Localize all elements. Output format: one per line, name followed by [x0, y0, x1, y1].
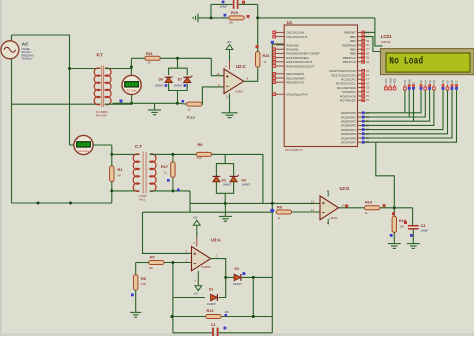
- meter ammeter PA1: [74, 135, 93, 154]
- svg-text:RE2/AN7/CS: RE2/AN7/CS: [286, 81, 304, 85]
- svg-text:RC5/SDO: RC5/SDO: [342, 90, 356, 94]
- U1 left pins: [276, 31, 284, 33]
- wire P.T primary top lead: [70, 68, 101, 70]
- wire P.T primary bottom: [12, 103, 101, 105]
- pin end cap right: [242, 1, 244, 3]
- marker D7: [184, 84, 187, 87]
- svg-text:1N4007: 1N4007: [174, 85, 183, 88]
- wire R7 right to inverting: [164, 262, 191, 264]
- wire net vertical low: [271, 277, 273, 332]
- marker R18: [390, 234, 393, 237]
- svg-text:RA3/AN3/VREF+: RA3/AN3/VREF+: [286, 56, 309, 60]
- wire LCD D4 to RD4: [365, 90, 444, 130]
- wire U3:A output down: [210, 259, 226, 278]
- resistor R12 body: [187, 102, 203, 106]
- diode D7: [183, 75, 192, 82]
- svg-text:R11: R11: [146, 52, 153, 56]
- svg-text:+: +: [77, 137, 79, 141]
- op-amp U2:C LM324: [224, 69, 244, 94]
- junction R19 parallel: [210, 16, 213, 19]
- wire clamp top stem: [177, 58, 179, 68]
- wire row B to U3:A +input: [143, 212, 192, 253]
- op-amp U3:A LM358N: [192, 247, 211, 271]
- junction voltmeter bottom: [130, 102, 133, 105]
- svg-text:RB3/PGM: RB3/PGM: [342, 43, 356, 47]
- wire R13 left lead: [173, 316, 205, 318]
- svg-text:RB0/INT: RB0/INT: [344, 31, 356, 35]
- svg-text:1N4007: 1N4007: [223, 183, 232, 186]
- marker near voltmeter: [120, 100, 123, 103]
- ground R18: [388, 244, 401, 249]
- wire LCD D5 to RD5: [365, 90, 448, 134]
- svg-text:LCD1: LCD1: [381, 34, 393, 39]
- wire cap down to node: [257, 4, 259, 18]
- resistor R16 body: [256, 52, 260, 68]
- resistor R6 body: [134, 275, 138, 291]
- wire clamp box top: [169, 68, 188, 75]
- marker R17 b: [177, 189, 180, 192]
- svg-text:+: +: [125, 77, 127, 81]
- pin end R19 right: [247, 15, 249, 17]
- wire LCD D3 to RD3: [365, 90, 434, 126]
- wire C1 right lead: [219, 332, 272, 334]
- wire R18 bottom lead: [393, 232, 395, 243]
- svg-text:RC6/TX/CK: RC6/TX/CK: [340, 94, 356, 98]
- svg-text:RD2/PSP2: RD2/PSP2: [341, 120, 356, 124]
- wire U2:D output: [339, 207, 364, 209]
- junction P.T primary top: [68, 67, 71, 70]
- wire D3 left: [226, 276, 234, 278]
- svg-text:C3: C3: [421, 224, 426, 228]
- junction bottom run a: [37, 202, 40, 205]
- AC source VSINE: [1, 41, 19, 59]
- ground common row: [219, 216, 232, 221]
- svg-text:P.T: P.T: [97, 53, 104, 58]
- ground P.T rail: [148, 110, 161, 115]
- diode D1: [211, 294, 218, 301]
- junction clamp top tap: [176, 57, 179, 60]
- svg-text:10k: 10k: [197, 156, 202, 160]
- wire R9 to U2:D inverting: [292, 211, 320, 213]
- wire R1 bottom lead: [111, 182, 113, 203]
- marker RA0: [271, 41, 274, 44]
- wire U2:C V+ stub: [229, 55, 231, 61]
- wire D3 right to net: [242, 276, 272, 278]
- svg-text:MCLR/Vpp/THV: MCLR/Vpp/THV: [286, 93, 308, 97]
- wire node18 run under LCD: [375, 18, 383, 46]
- capacitor 104pF top: [234, 0, 238, 9]
- svg-text:OSC2/CLKOUT: OSC2/CLKOUT: [286, 35, 307, 39]
- svg-text:12: 12: [311, 200, 315, 204]
- svg-text:1N4007: 1N4007: [207, 303, 216, 306]
- wire U3:A V+ stub: [196, 231, 198, 237]
- wire C.T secondary top: [150, 153, 197, 155]
- svg-text:OSC1/CLKIN: OSC1/CLKIN: [286, 31, 304, 35]
- wire ammeter right lead: [93, 144, 112, 146]
- wire C.T primary bottom lead: [112, 190, 140, 192]
- wire AC+ vertical to meter: [69, 35, 71, 145]
- svg-text:D1: D1: [209, 287, 213, 291]
- wire lower clamp bottom stem: [224, 193, 226, 203]
- junction meter top: [130, 66, 133, 69]
- svg-text:RD4/PSP4: RD4/PSP4: [341, 128, 356, 132]
- wire RA0 pin stub: [272, 43, 284, 45]
- wire AC- bottom run: [12, 202, 112, 204]
- svg-text:RA4/T0CKI/C1OUT: RA4/T0CKI/C1OUT: [286, 60, 312, 64]
- wire C3 bottom lead: [412, 229, 414, 244]
- meter voltmeter PV1: [122, 75, 141, 94]
- wire common row A / U2:D +input: [190, 202, 320, 204]
- ground C3: [407, 244, 420, 249]
- svg-text:RC0/T1OSO/T1CKI: RC0/T1OSO/T1CKI: [329, 69, 356, 73]
- resistor R19 body: [229, 16, 245, 20]
- svg-text:1N4007: 1N4007: [155, 85, 164, 88]
- wire U2:C output up to R16: [244, 67, 258, 81]
- pin U2:C V+: [229, 61, 231, 70]
- junction R13 left: [170, 315, 173, 318]
- resistor R11 body: [145, 56, 161, 60]
- wire top rail: [12, 34, 70, 36]
- wire R16 top lead: [257, 18, 259, 52]
- wire AC- vertical: [11, 59, 13, 203]
- wire lower clamp top stem: [224, 154, 226, 163]
- svg-text:RD5/PSP5: RD5/PSP5: [341, 132, 356, 136]
- svg-text:R19: R19: [231, 11, 238, 15]
- svg-text:RE1/AN6/WR: RE1/AN6/WR: [286, 76, 305, 80]
- wire R12 to inverting input: [202, 87, 224, 104]
- svg-text:RD7/PSP7: RD7/PSP7: [341, 141, 356, 145]
- wire LCD D2 to RD2: [365, 90, 430, 121]
- svg-text:RA0/AN0: RA0/AN0: [286, 43, 299, 47]
- wire LCD E drop: [413, 90, 415, 121]
- svg-text:U2:C: U2:C: [236, 64, 246, 69]
- junction C.T primary top: [110, 153, 113, 156]
- svg-text:RA2/AN2/VREF-/CVREF: RA2/AN2/VREF-/CVREF: [286, 52, 320, 56]
- svg-text:RA1/AN1: RA1/AN1: [286, 48, 299, 52]
- pin end U2:D out: [346, 205, 348, 207]
- marker R19: [224, 14, 227, 17]
- resistor R17 body: [171, 162, 175, 178]
- svg-text:U1: U1: [287, 20, 293, 25]
- svg-text:RD0/PSP0: RD0/PSP0: [341, 111, 356, 115]
- wire C3 top lead: [412, 208, 414, 225]
- svg-text:PIC16F877A: PIC16F877A: [285, 148, 302, 152]
- svg-text:+5V: +5V: [226, 40, 231, 44]
- wire R8 right drop: [212, 154, 263, 203]
- junction R17 top: [171, 153, 174, 156]
- junction R17 bottom: [171, 189, 174, 192]
- svg-text:R9: R9: [277, 205, 282, 209]
- resistor R14 body: [364, 206, 380, 210]
- svg-text:No Load: No Load: [389, 56, 423, 67]
- svg-text:U3:A: U3:A: [211, 237, 221, 242]
- svg-text:RC1/T1OSI/CCP2: RC1/T1OSI/CCP2: [331, 73, 356, 77]
- junction R9 tap (blue): [270, 209, 274, 213]
- LCD screen: [386, 53, 470, 72]
- ground R6: [130, 312, 141, 317]
- wire R6 top lead: [135, 263, 137, 275]
- marker C1: [224, 327, 227, 330]
- wire R14 right: [380, 207, 412, 209]
- wire to U2:C non-inverting input: [211, 58, 224, 75]
- resistor R1 body: [110, 166, 114, 182]
- wire RA0 net vertical: [271, 44, 273, 277]
- svg-text:LM016L: LM016L: [381, 40, 392, 44]
- wire LCD D7 to RD7: [365, 90, 457, 142]
- resistor R8 body: [196, 152, 212, 156]
- wire R17 top lead: [172, 154, 174, 161]
- marker C3: [410, 234, 413, 237]
- wire voltmeter bottom: [131, 95, 133, 104]
- svg-text:R14: R14: [365, 200, 373, 204]
- wire R11 right to opamp node: [160, 57, 211, 59]
- svg-text:RC7/RX/DT: RC7/RX/DT: [340, 99, 356, 103]
- wire R11 left lead: [131, 57, 144, 59]
- wire node to RB0 run: [258, 17, 375, 19]
- wire P.T secondary bottom stub: [105, 103, 132, 105]
- +5V power U3:A: [193, 220, 200, 231]
- svg-text:D7: D7: [178, 78, 182, 82]
- svg-text:D6: D6: [159, 78, 163, 82]
- svg-text:1N4007: 1N4007: [233, 283, 242, 286]
- diode D2: [213, 176, 221, 181]
- svg-text:RD6/PSP6: RD6/PSP6: [341, 136, 356, 140]
- U1 PIC16F877A body: [284, 25, 357, 147]
- wire clamp bottom stem: [177, 91, 179, 104]
- svg-text:RB5: RB5: [350, 52, 356, 56]
- pin end R14: [383, 205, 385, 207]
- op-amp U2:D LM324: [320, 196, 339, 220]
- svg-text:10: 10: [217, 72, 221, 76]
- marker D3: [243, 272, 246, 275]
- svg-text:RB1: RB1: [350, 35, 356, 39]
- wire ground to R19: [198, 17, 229, 19]
- junction C.T primary bottom: [110, 189, 113, 192]
- wire R18 top lead: [393, 208, 395, 217]
- marker cap: [222, 1, 225, 4]
- svg-text:RD3/PSP3: RD3/PSP3: [341, 124, 356, 128]
- wire R6 bottom lead: [135, 290, 137, 312]
- svg-text:+5V: +5V: [193, 215, 198, 219]
- svg-text:RC3/SCK/SCL: RC3/SCK/SCL: [336, 82, 356, 86]
- wire cap right: [239, 3, 258, 5]
- svg-text:14: 14: [342, 204, 346, 208]
- wire R12 left lead: [178, 102, 187, 105]
- svg-text:R13: R13: [207, 309, 214, 313]
- marker R6: [131, 294, 134, 297]
- junction lower clamp: [224, 202, 227, 205]
- svg-text:R16: R16: [263, 54, 270, 58]
- marker R12: [182, 100, 185, 103]
- svg-text:13: 13: [311, 208, 315, 212]
- ground U2:C: [222, 113, 238, 118]
- wire R1 top lead: [111, 154, 113, 166]
- LCD1 LM016L body: [381, 49, 474, 75]
- pin end R18: [392, 213, 394, 215]
- svg-text:R6: R6: [141, 277, 146, 281]
- U1 right pins: [358, 31, 365, 33]
- wire P.T secondary bottom rail: [112, 102, 177, 104]
- wire feedback vertical: [172, 263, 174, 333]
- svg-text:1N4007: 1N4007: [242, 183, 251, 186]
- wire D1 right up: [219, 277, 226, 297]
- wire LCD RS drop: [404, 90, 406, 113]
- wire to cap left: [211, 4, 233, 18]
- diode D4: [230, 175, 239, 182]
- svg-text:RB4: RB4: [350, 48, 356, 52]
- wire meter top node vertical: [130, 58, 132, 75]
- diode D6: [165, 77, 173, 82]
- svg-text:R7: R7: [150, 256, 155, 260]
- wire lower clamp box bottom: [216, 182, 233, 194]
- pin U3:A V+: [196, 237, 198, 247]
- wire LCD RW drop: [408, 90, 410, 117]
- svg-text:RB2: RB2: [350, 39, 356, 43]
- wire RB1 run under LCD: [365, 37, 382, 52]
- wire D1 left: [173, 297, 205, 299]
- svg-text:D2: D2: [222, 178, 226, 182]
- wire U3:A V- stub: [197, 271, 199, 285]
- svg-text:RB7/PGD: RB7/PGD: [343, 60, 357, 64]
- diode D3: [234, 274, 241, 281]
- marker D6: [165, 84, 168, 87]
- capacitor C3: [408, 226, 419, 229]
- junction RA0 row A: [271, 202, 274, 205]
- wire ammeter left lead: [70, 144, 75, 146]
- wire C.T bottom drop: [189, 191, 191, 212]
- wire AC top stub: [11, 35, 13, 41]
- svg-text:RA5/AN4/SS/C2OUT: RA5/AN4/SS/C2OUT: [286, 64, 315, 68]
- capacitor C1: [213, 328, 218, 336]
- pin end R16: [256, 46, 258, 48]
- wire R13 right lead: [222, 316, 273, 318]
- svg-text:R8: R8: [198, 143, 203, 147]
- junction D3 row: [252, 276, 255, 279]
- wire C.T primary top lead: [112, 153, 140, 155]
- wire down to R13 row: [252, 277, 254, 316]
- wire node riser: [376, 142, 395, 208]
- svg-text:10k: 10k: [229, 21, 234, 25]
- junction R16 top node: [256, 16, 259, 19]
- svg-text:C1: C1: [211, 323, 216, 327]
- junction feedback node: [171, 261, 174, 264]
- wire ground stem: [154, 103, 156, 110]
- svg-text:RD1/PSP1: RD1/PSP1: [341, 115, 356, 119]
- wire down to C.T primary: [111, 145, 113, 154]
- wire LCD D6 to RD6: [365, 90, 453, 138]
- junction bottom run b: [69, 202, 72, 205]
- svg-text:RC2/CCP1: RC2/CCP1: [341, 78, 356, 82]
- wire C1 left lead: [173, 332, 212, 334]
- svg-text:R17: R17: [161, 165, 168, 169]
- resistor R9 body: [276, 210, 292, 214]
- resistor R7 body: [149, 261, 165, 265]
- svg-text:R12: R12: [187, 115, 196, 120]
- svg-text:D3: D3: [235, 267, 239, 271]
- wire lower clamp box top: [216, 164, 233, 177]
- svg-text:RE0/AN5/RD: RE0/AN5/RD: [286, 72, 305, 76]
- ground (rotated) top-left: [193, 14, 198, 23]
- pin end C3: [404, 221, 406, 223]
- wire U2:D V+ stub: [327, 191, 329, 197]
- wire common row B: [143, 211, 273, 213]
- wire LCD D0 to RD0: [365, 90, 422, 113]
- wire R17 bottom lead: [172, 177, 174, 191]
- junction clamp bottom: [176, 102, 179, 105]
- svg-text:RC4/SDI/SDA: RC4/SDI/SDA: [337, 86, 356, 90]
- transformer P.T: [94, 66, 111, 108]
- wire U2:C V- stub: [229, 94, 231, 113]
- transformer C.T: [133, 152, 156, 194]
- svg-text:U2:D: U2:D: [340, 186, 350, 191]
- wire LCD D1 to RD1: [365, 90, 426, 117]
- +5V power U2:C: [226, 45, 233, 56]
- svg-text:RB6/PGC: RB6/PGC: [343, 56, 357, 60]
- wire R7 left lead: [136, 262, 149, 264]
- resistor R13 body: [206, 315, 222, 319]
- junction U3:A output node: [224, 276, 227, 279]
- junction R14 node: [393, 206, 396, 209]
- svg-text:D4: D4: [242, 178, 246, 182]
- marker R17: [167, 179, 170, 182]
- svg-text:AC: AC: [22, 42, 29, 48]
- wire C.T secondary bottom: [150, 190, 190, 192]
- 0V power U3:A: [195, 285, 202, 291]
- svg-text:10k: 10k: [149, 266, 154, 270]
- resistor R18 body: [392, 216, 396, 232]
- junction R13 row: [252, 315, 255, 318]
- svg-text:R1: R1: [118, 168, 123, 172]
- wire clamp box bottom: [169, 83, 188, 90]
- svg-text:-0V: -0V: [194, 292, 198, 296]
- wire P.T secondary top lead: [105, 68, 131, 70]
- wire U2:D V- stub: [327, 219, 329, 225]
- wire row ground stem: [224, 203, 226, 216]
- svg-text:C.T: C.T: [135, 144, 142, 149]
- wire RB0 stub: [365, 31, 375, 33]
- marker R13: [225, 314, 228, 317]
